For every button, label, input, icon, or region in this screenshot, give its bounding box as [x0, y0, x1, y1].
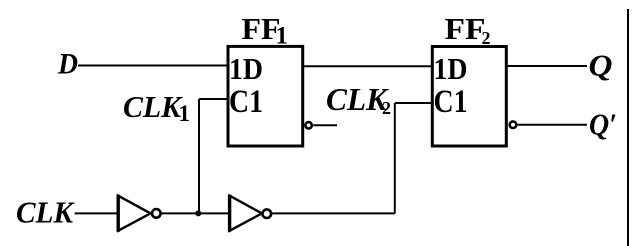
inverter 1 triangle	[118, 195, 150, 232]
svg-text:CLK: CLK	[123, 89, 183, 124]
output label Q	[589, 48, 613, 83]
label CLK1	[123, 89, 190, 126]
svg-text:Q: Q	[589, 48, 613, 83]
svg-text:1: 1	[276, 23, 289, 50]
wire CLK input to inverter 1	[75, 212, 118, 214]
svg-text:1D: 1D	[434, 51, 468, 86]
wire CLK1 horizontal to FF1 C1	[199, 98, 228, 100]
label FF1	[242, 11, 289, 50]
flip-flop FF2 box	[432, 47, 506, 147]
stub wire from FF1 inverted output	[313, 124, 337, 126]
svg-text:D: D	[57, 48, 78, 81]
wire FF2 Q' output	[518, 124, 587, 126]
inverter 2 triangle	[230, 195, 262, 232]
svg-text:1D: 1D	[229, 51, 263, 86]
svg-text:2: 2	[382, 98, 391, 118]
inverted output bubble of FF2	[510, 121, 517, 128]
svg-text:CLK: CLK	[16, 195, 75, 230]
bubble of inverter 2	[263, 209, 272, 218]
flip-flop FF1 box	[228, 46, 303, 146]
wire CLK2 horizontal to FF2 C1	[395, 102, 432, 104]
bubble of inverter 1	[152, 209, 161, 218]
wire FF1 output to FF2 1D	[303, 65, 432, 67]
pin label 1D of FF2	[434, 51, 468, 86]
inverted output bubble of FF1	[305, 122, 311, 128]
pin label C1 of FF2	[434, 84, 468, 120]
svg-text:CLK: CLK	[326, 81, 390, 117]
label CLK2	[326, 81, 391, 118]
wire D to FF1 1D	[78, 65, 228, 67]
wire CLK1 vertical	[198, 99, 200, 213]
wire inverter 1 to inverter 2	[161, 212, 229, 214]
svg-text:FF: FF	[445, 11, 486, 46]
wire CLK2 vertical	[394, 103, 396, 213]
svg-text:C1: C1	[434, 84, 468, 120]
output label Q'	[589, 107, 617, 142]
input label D	[57, 48, 78, 81]
svg-text:Q′: Q′	[589, 107, 617, 142]
wire inverter 2 output to CLK2 vertical	[271, 212, 394, 214]
pin label C1 of FF1	[229, 84, 263, 120]
wire FF2 Q output	[506, 65, 587, 67]
label FF2	[445, 11, 491, 48]
pin label 1D of FF1	[229, 51, 263, 86]
svg-text:2: 2	[482, 28, 491, 48]
label CLK	[16, 195, 75, 230]
svg-text:C1: C1	[229, 84, 263, 120]
svg-text:1: 1	[179, 101, 191, 126]
junction dot	[195, 210, 201, 216]
